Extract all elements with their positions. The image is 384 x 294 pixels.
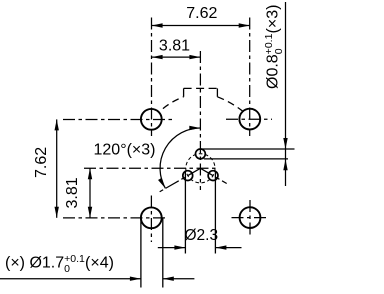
hole H4 bottom-right (Ø1.7): [240, 207, 261, 228]
keying notch left step: [183, 88, 185, 96]
centerline H4 horizontal: [232, 217, 269, 219]
extension line pin P1 bottom edge: [204, 158, 288, 160]
dimension line Ø0.8 right lower: [285, 159, 287, 186]
label Ø0.8 +0.1/0 (×3) right: [263, 5, 285, 89]
svg-text:3.81: 3.81: [159, 38, 190, 55]
dimension line 3.81 top: [152, 56, 201, 58]
label 3.81 left: [64, 177, 81, 208]
extension line left edge of pitch circle: [184, 171, 186, 254]
centerline H2 horizontal: [226, 118, 272, 120]
pin hole P3 lower-right (Ø0.8): [208, 171, 218, 181]
dimension line Ø2.3 right part: [215, 247, 241, 249]
centerline H3 horizontal: [63, 217, 168, 219]
extension line left edge of hole H3: [140, 218, 142, 288]
extension line right edge of hole H3: [162, 218, 164, 288]
dimension line 7.62 top: [152, 25, 250, 27]
svg-text:120°(×3): 120°(×3): [94, 142, 156, 159]
spoke centerline 210 deg: [158, 168, 201, 193]
hole H1 top-left (Ø1.7): [141, 109, 162, 130]
extension line pin P1 top edge: [201, 148, 295, 150]
hole H3 bottom-left (Ø1.7): [141, 207, 162, 228]
hole H2 top-right (Ø1.7): [239, 109, 260, 130]
keying notch flat top dashed: [184, 87, 218, 89]
centerline H4 vertical: [249, 200, 251, 235]
main horizontal centerline: [84, 167, 218, 169]
dashed body outline left slope: [160, 97, 184, 112]
centerline H3 vertical: [150, 196, 152, 243]
label 7.62 left: [33, 147, 50, 178]
extension line right edge of pitch circle: [214, 171, 216, 254]
svg-text:7.62: 7.62: [33, 147, 50, 178]
dimension line 3.81 left: [89, 168, 91, 218]
pin hole P1 top (Ø0.8): [196, 149, 206, 159]
svg-text:Ø2.3: Ø2.3: [185, 227, 219, 244]
dimension line Ø2.3 left part: [158, 247, 186, 249]
dimension line Ø1.7 left part: [0, 278, 141, 280]
keying notch right step: [216, 88, 218, 96]
pin hole P2 lower-left (Ø0.8): [183, 171, 193, 181]
dimension line 7.62 left: [56, 119, 58, 217]
centerline H1 horizontal: [63, 119, 175, 121]
dimension line Ø1.7 right part: [163, 278, 195, 280]
dimension line Ø0.8 right upper: [285, 2, 287, 159]
centerline H1 vertical / extension for 7.62: [151, 18, 153, 137]
spoke centerline 330 deg: [200, 168, 226, 183]
angular dimension arc 120 deg: [160, 128, 200, 188]
pitch circle Ø2.3 dashed: [186, 154, 215, 183]
centerline H2 vertical / extension for 7.62: [249, 18, 251, 137]
dashed body outline right slope: [217, 97, 242, 111]
main vertical centerline / extension for 3.81 top: [199, 51, 201, 190]
svg-text:7.62: 7.62: [186, 5, 217, 22]
svg-text:3.81: 3.81: [64, 177, 81, 208]
